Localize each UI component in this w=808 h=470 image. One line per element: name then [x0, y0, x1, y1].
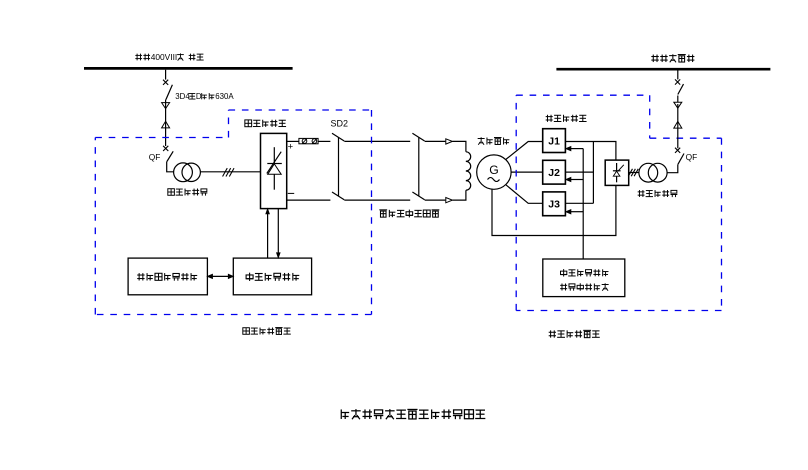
breaker QF2 blade: [678, 154, 684, 165]
label QF2: [686, 152, 698, 162]
feeder switch QS3 blade: [678, 84, 684, 94]
three-phase slashes on T1-U1 wire: [223, 168, 234, 176]
polarity plus: [288, 142, 294, 153]
stator cabinet U2 box: [605, 160, 629, 185]
svg-text:400VIII: 400VIII: [151, 52, 178, 62]
thyristor V2 gate diagonal: [618, 165, 624, 172]
rotor cabinet U1 转子电源柜 box: [261, 133, 287, 208]
wire generator to J1: [506, 142, 543, 160]
title 电动盘车装置接线原理方框图: [341, 409, 485, 419]
feeder switch QS1 blade: [166, 85, 173, 100]
thyristor V2 anode lead: [616, 176, 618, 182]
wire FU1 to SD2 upper: [318, 140, 330, 142]
wire QF2 to drawout: [677, 128, 679, 148]
thyristor V2 cathode lead: [616, 163, 618, 171]
svg-text:QF: QF: [686, 152, 698, 162]
control wire to J2 arrow: [566, 178, 583, 182]
transformer T1 转子电源变 circle a: [174, 163, 193, 182]
breaker QF2 contact x: [675, 148, 680, 153]
wire generator neutral down: [492, 185, 616, 235]
generator G letter: [489, 163, 498, 177]
wire U1 positive output: [287, 140, 299, 142]
switch SD2 lower blade: [332, 192, 344, 200]
generator G 发电机组 circle: [477, 155, 511, 189]
control riser to handheld controller box: [582, 149, 584, 259]
wire U1 negative output to SD2 lower: [287, 199, 331, 201]
label 发电机组: [478, 137, 510, 144]
label bus B1: [135, 52, 203, 62]
label 转子电源变: [168, 189, 208, 196]
label 定子电源柜: [546, 115, 587, 122]
contactor J2 label: [548, 167, 560, 179]
switch QS2 upper blade: [412, 133, 424, 141]
label 3D4柜D抽屉630A: [175, 92, 234, 101]
bus B1 厂用400VIII段母线 (left busbar): [84, 67, 293, 70]
control wire to J1 arrow: [566, 147, 583, 151]
wire U2 to T2: [629, 172, 639, 174]
wire bus to feeder switch: [165, 70, 167, 80]
polarity minus: [288, 192, 294, 194]
svg-text:630A: 630A: [215, 92, 234, 101]
label 现地测量控制 rotor: [246, 273, 300, 281]
svg-text:J2: J2: [548, 167, 560, 179]
feeder switch QS1 contact x: [163, 80, 168, 85]
wire bus B2 to QS3: [677, 70, 679, 79]
thyristor V1 cathode lead: [273, 147, 275, 163]
svg-text:D: D: [196, 92, 202, 101]
label bus B2: [651, 54, 694, 62]
wire J2/J3 output riser: [592, 142, 594, 204]
label 控制室测量控制: [137, 273, 197, 281]
wire switch to drawout: [165, 100, 167, 104]
boundary 转子电源部分 dashed box: [95, 110, 371, 315]
box 控制室测量控制: [128, 258, 207, 295]
drawout contact lower (triangle up): [162, 121, 170, 128]
wire between drawout triangles right: [677, 104, 679, 128]
contactor J1 box: [543, 129, 566, 153]
box 现地测量控制 (rotor): [233, 258, 311, 295]
wire drawout to QF1: [165, 128, 167, 146]
control wire to J3 arrow: [566, 210, 583, 214]
switch SD2 upper blade: [332, 133, 344, 141]
connector XP2 (triangle right, lower): [446, 198, 453, 203]
label SD2: [331, 119, 349, 129]
label 转子电源部分: [243, 328, 291, 335]
control link double arrow between boxes: [208, 274, 234, 278]
thyristor V1 anode lead: [273, 174, 275, 189]
svg-text:J1: J1: [548, 135, 560, 147]
label 转子电源柜: [245, 120, 286, 127]
label QF1: [149, 152, 161, 162]
wire T2 to QF2: [667, 165, 678, 173]
svg-text:G: G: [489, 163, 498, 177]
wire QS2 to connector lower: [425, 199, 446, 201]
wire generator to J2: [511, 171, 543, 173]
fuse FU1 contact b: [312, 139, 317, 144]
svg-text:3D4: 3D4: [175, 92, 190, 101]
contactor J3 label: [548, 199, 560, 211]
fuse FU1 contact a: [302, 139, 307, 144]
transformer T2 定子电源变 circle a: [639, 163, 658, 182]
boundary 定子电源部分 dashed box: [516, 95, 721, 310]
control link arrow down line: [277, 209, 280, 258]
feeder switch QS3 contact x: [675, 79, 680, 84]
svg-text:SD2: SD2: [331, 119, 349, 129]
contactor J3 box: [543, 192, 566, 216]
transformer T2 定子电源变 circle b: [648, 163, 667, 182]
drawout contact upper right (triangle down): [674, 102, 682, 108]
control link arrow U1-up line: [266, 209, 269, 258]
switch QS2 link bar: [418, 137, 420, 196]
transformer T1 转子电源变 circle b: [182, 163, 200, 181]
box 现地测量控制/手持式控制器: [543, 259, 625, 297]
drawout contact lower right (triangle up): [674, 121, 682, 128]
breaker QF1 contact x: [163, 146, 168, 151]
label 现地测量控制 stator: [560, 269, 608, 276]
wire connector to field winding top: [453, 141, 466, 151]
svg-text:QF: QF: [149, 152, 161, 162]
wire QF1 to transformer T1: [167, 162, 174, 172]
thyristor V2 cathode bar: [613, 170, 621, 172]
fuse FU1 body: [299, 138, 318, 143]
three-phase slashes on U2-T2 wire: [628, 169, 638, 176]
svg-text:J3: J3: [548, 199, 560, 211]
wire generator to J3: [506, 185, 543, 204]
switch SD2 link bar: [338, 137, 340, 196]
wire drawout to feeder switch right: [677, 96, 679, 103]
wire T1 to rotor cabinet U1: [200, 171, 260, 173]
label 定子电源变: [638, 190, 678, 197]
thyristor V2 triangle: [613, 171, 620, 176]
wire J1 output to U2: [565, 142, 616, 161]
connector XP1 (triangle right, upper): [446, 139, 453, 144]
label 定子电源部分: [549, 330, 600, 337]
breaker QF1 blade: [167, 151, 173, 161]
wire connector to field winding bottom: [453, 190, 466, 200]
label 机组举升柜闸刀: [379, 210, 439, 218]
wire J2 output: [565, 171, 593, 173]
label 手持式控制器: [560, 283, 608, 290]
thyristor V1 triangle: [268, 164, 282, 174]
svg-text:+: +: [288, 142, 294, 153]
wire J3 output: [565, 202, 593, 204]
field winding LG (4 arcs): [466, 152, 471, 190]
drawout contact upper (triangle down): [162, 103, 170, 109]
wire between drawout triangles: [165, 103, 167, 128]
thyristor V1 gate diagonal: [267, 152, 281, 174]
wire SD2 to QS2 upper: [344, 140, 410, 142]
bus B2 公用动力屏 (right busbar): [556, 68, 770, 71]
contactor J1 label: [548, 135, 560, 147]
switch QS2 lower blade: [412, 192, 424, 200]
generator tilde: [488, 178, 500, 182]
wire QS2 to connector upper: [425, 140, 446, 142]
wire SD2 to QS2 lower: [344, 199, 410, 201]
contactor J2 box: [543, 160, 566, 184]
thyristor V1 cathode bar: [267, 163, 282, 165]
